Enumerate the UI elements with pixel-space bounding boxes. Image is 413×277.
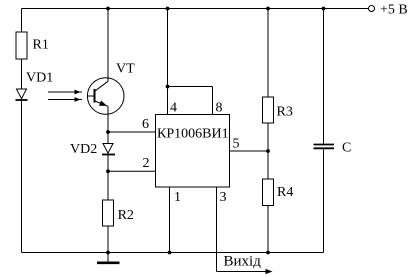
wire bottom ground rail: [22, 252, 324, 254]
wire R3 to R4: [267, 123, 269, 179]
svg-text:VD2: VD2: [70, 142, 97, 157]
wire pins 4 and 8 from rail: [166, 7, 213, 115]
node emitter / pin6 junction: [106, 130, 110, 134]
node VD2 / pin2 junction: [106, 169, 110, 173]
wire R1 bottom to VD1: [21, 59, 23, 89]
wire pin 3 output down: [216, 187, 218, 272]
wire pin 5: [230, 150, 269, 152]
svg-text:R4: R4: [277, 185, 293, 200]
transistor VT (photo): [87, 78, 124, 115]
wire pin 6: [108, 131, 156, 133]
wire C bottom to rail corner: [323, 149, 325, 252]
wire R3 top lead from rail: [267, 9, 269, 98]
light arrow 1: [48, 90, 82, 95]
wire output with arrow: [217, 269, 273, 274]
ground: [97, 251, 120, 263]
node rail / C junction: [322, 7, 326, 11]
diode VD1: [16, 89, 28, 100]
resistor R2: [103, 200, 114, 226]
op-amp U1 timer IC box КР1006ВИ1: [156, 115, 230, 188]
diode VD2: [102, 144, 115, 155]
light arrow 2: [48, 97, 82, 102]
svg-text:R3: R3: [277, 105, 293, 120]
wire R4 bottom to rail: [267, 206, 269, 253]
wire VT collector from rail: [107, 9, 109, 82]
wire left column top (R1 top lead): [21, 9, 23, 33]
wire R2 bottom to rail: [107, 226, 109, 253]
svg-text:6: 6: [142, 117, 149, 132]
svg-text:КР1006ВИ1: КР1006ВИ1: [157, 126, 229, 141]
svg-text:C: C: [342, 141, 351, 156]
capacitor C: [314, 145, 335, 149]
svg-text:4: 4: [170, 101, 177, 116]
svg-text:1: 1: [174, 190, 181, 205]
svg-text:+5 В: +5 В: [380, 3, 408, 18]
node junction top rail / VT: [106, 7, 110, 11]
resistor R1: [16, 32, 27, 59]
svg-text:Вихід: Вихід: [224, 254, 262, 270]
terminal +5V: [369, 6, 375, 12]
resistor R4: [263, 179, 274, 206]
svg-text:R1: R1: [33, 38, 49, 53]
wire pin 2: [108, 170, 156, 172]
svg-text:R2: R2: [118, 208, 134, 223]
node R4 / rail junction: [266, 251, 270, 255]
svg-text:5: 5: [233, 137, 240, 152]
wire pin 1 to ground rail: [169, 187, 171, 253]
wire VD1 cathode to bottom rail: [21, 101, 23, 253]
node pin5 / R3 R4 junction: [266, 149, 270, 153]
node rail / R3 junction: [266, 7, 270, 11]
node pin1 / rail junction: [168, 251, 172, 255]
wire C top lead from rail: [323, 9, 325, 145]
svg-text:2: 2: [143, 156, 150, 171]
resistor R3: [263, 97, 274, 123]
svg-text:8: 8: [216, 101, 223, 116]
svg-text:VT: VT: [116, 61, 135, 76]
svg-text:VD1: VD1: [26, 71, 53, 86]
svg-text:3: 3: [220, 190, 227, 205]
wire VT emitter down to VD2: [107, 106, 109, 143]
wire top +5V rail: [22, 8, 369, 10]
wire VD2 cathode down to R2: [107, 156, 109, 201]
